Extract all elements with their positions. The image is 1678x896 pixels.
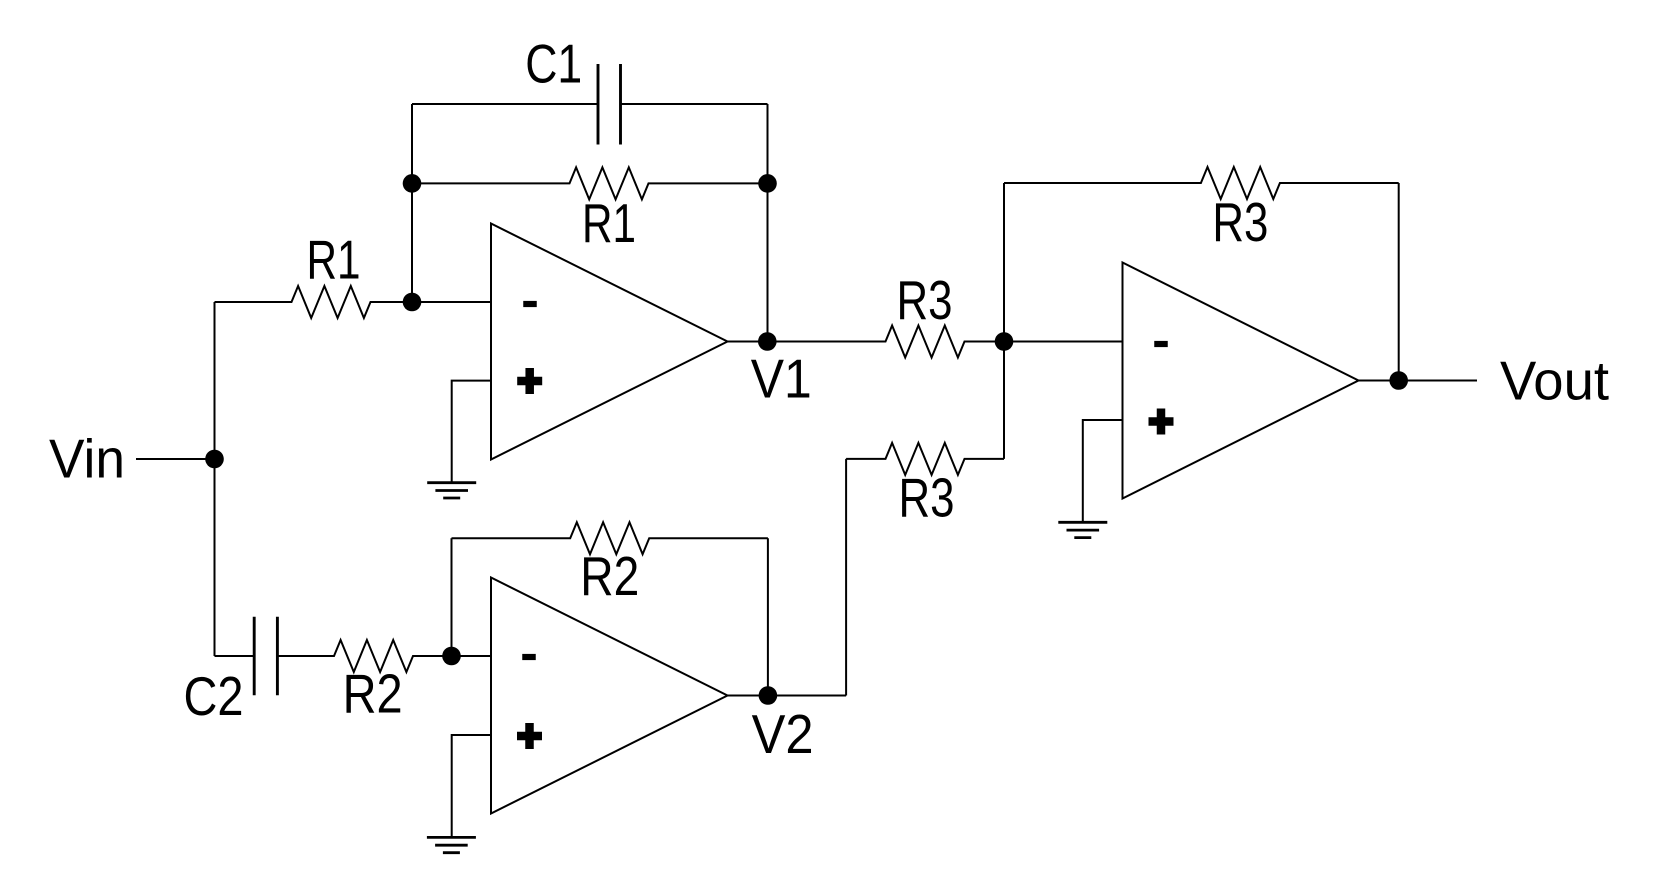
- svg-text:R3: R3: [1212, 191, 1268, 253]
- svg-text:Vin: Vin: [49, 428, 125, 490]
- svg-text:V2: V2: [752, 703, 814, 765]
- svg-text:R2: R2: [580, 545, 639, 607]
- svg-text:R1: R1: [307, 229, 361, 291]
- svg-text:V1: V1: [751, 348, 812, 410]
- svg-text:R1: R1: [582, 192, 636, 254]
- svg-text:C2: C2: [184, 665, 244, 727]
- svg-text:R2: R2: [343, 663, 403, 725]
- svg-text:R3: R3: [899, 467, 955, 529]
- svg-text:Vout: Vout: [1500, 349, 1609, 411]
- svg-text:R3: R3: [897, 269, 953, 331]
- svg-text:C1: C1: [525, 33, 582, 95]
